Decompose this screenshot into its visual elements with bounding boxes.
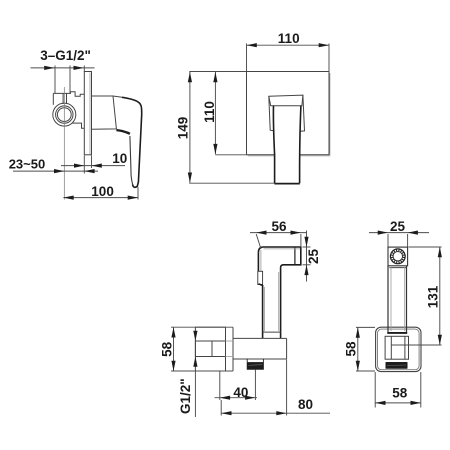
dimension 149 line [189, 72, 191, 183]
wall bracket side view: flange edge extension line [194, 371, 196, 417]
svg-text:58: 58 [159, 341, 174, 357]
hand spray side view: control button [258, 271, 263, 284]
dimension 100 line [63, 197, 138, 199]
dimension 10 line [61, 165, 125, 167]
wall bracket side view: knurled hose nut [246, 359, 248, 369]
dimension 58 holder line [357, 327, 359, 371]
hand spray front view: spray head box [388, 247, 408, 266]
svg-text:149: 149 [175, 117, 190, 140]
hand spray side view: head outline [258, 247, 300, 268]
dimension 40 line [215, 397, 258, 399]
dimension 110 horizontal line [247, 44, 330, 46]
mixer front view: spout stem [273, 106, 274, 184]
svg-text:3–G1/2": 3–G1/2" [40, 48, 91, 63]
svg-text:58: 58 [392, 385, 408, 400]
svg-text:G1/2": G1/2" [178, 378, 193, 414]
svg-text:131: 131 [426, 285, 441, 308]
dimension 25 side line [306, 231, 308, 282]
svg-text:25: 25 [306, 249, 321, 265]
svg-text:10: 10 [112, 151, 127, 166]
dimension 56 line [250, 232, 307, 234]
mixer front view: square wall plate [247, 71, 330, 73]
dimension 110 vertical line [214, 72, 216, 154]
mixer side view: wall plate [84, 72, 91, 155]
mixer side view: handle neck line [113, 96, 122, 97]
hand spray side view: handle body [259, 284, 263, 339]
dimension 25 front line [369, 232, 429, 234]
mixer side view: valve body outline [53, 92, 84, 97]
hand spray side view: head highlight lines [260, 250, 262, 271]
mixer side view: cartridge cover [92, 96, 117, 129]
dimension 58 flange line [173, 327, 175, 371]
hand spray front view: holder escutcheon [376, 327, 421, 371]
svg-text:23~50: 23~50 [9, 156, 46, 171]
svg-text:56: 56 [272, 219, 288, 234]
dimension 80 line [221, 412, 330, 414]
svg-text:110: 110 [202, 101, 217, 123]
svg-text:110: 110 [278, 31, 300, 46]
dimension 58 bottom line [375, 402, 421, 404]
hand spray front view: spray face circle [390, 249, 405, 264]
mixer side view: vertical centerline [63, 87, 65, 200]
mixer side view: top port slot [62, 93, 64, 104]
wall bracket side view: G1/2 socket box [195, 341, 225, 357]
mixer front view: spout side flaps [269, 96, 274, 130]
svg-text:80: 80 [298, 397, 313, 412]
svg-text:25: 25 [390, 219, 406, 234]
dimension 23~50 line [13, 170, 98, 172]
hand spray front view: handle body [387, 266, 389, 333]
wall bracket side view: square flange [195, 327, 225, 371]
mixer side view: G1/2 port circles [53, 103, 76, 126]
dimension 3-G1/2 line [31, 67, 95, 69]
hand spray front view: hose nut [386, 362, 408, 369]
svg-text:100: 100 [91, 184, 114, 199]
mixer side view: handle inner thick curve [116, 130, 129, 134]
dimension 131 line [439, 247, 441, 345]
mixer front view: spout cap [269, 95, 303, 106]
hand spray front view: holder cup [387, 332, 407, 334]
mixer side view: lever handle outline [122, 97, 142, 187]
wall bracket side view: holder body [232, 327, 234, 371]
svg-text:58: 58 [343, 341, 358, 357]
